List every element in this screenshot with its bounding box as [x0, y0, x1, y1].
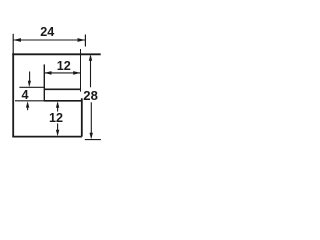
dimension line 12 top — [44, 72, 80, 74]
arrow down to slot top (4 dim) — [29, 72, 31, 82]
extension line bottom of 4 — [15, 100, 44, 102]
svg-text:4: 4 — [21, 88, 28, 102]
arrow up to slot bottom (4 dim) — [27, 106, 29, 110]
dimension line 24 — [13, 39, 85, 41]
extension tick left of 24 — [12, 34, 14, 54]
extension tick right of 24 — [84, 35, 86, 47]
arrow left of 12 top — [44, 71, 51, 75]
lower right edge of part — [81, 98, 83, 136]
bottom edge of part — [12, 136, 82, 138]
svg-text:12: 12 — [49, 111, 63, 125]
dimension line 12 bottom upper segment with up arrow — [57, 103, 59, 112]
dimension line 12 bottom lower segment with down arrow — [57, 124, 59, 135]
extension line top of 4 — [19, 86, 44, 88]
arrow right of 24 — [78, 38, 86, 42]
top edge of part (with 28-dim extension to right) — [12, 53, 100, 55]
arrow right of 12 top — [73, 71, 80, 75]
left edge of part — [12, 53, 14, 136]
extension line x80 (slot right / tick) — [80, 49, 82, 92]
slot left edge / left tick of 12 top — [43, 64, 45, 100]
slot top edge — [44, 88, 81, 90]
dimension line 28 lower segment with down arrow — [90, 102, 92, 137]
svg-text:12: 12 — [57, 59, 71, 73]
slot bottom edge — [44, 100, 82, 102]
arrow left of 24 — [13, 38, 21, 42]
svg-text:24: 24 — [40, 25, 54, 39]
bottom extension line for 28 — [85, 139, 101, 141]
dimension line 28 upper segment with up arrow — [90, 56, 92, 87]
svg-text:28: 28 — [83, 88, 98, 103]
